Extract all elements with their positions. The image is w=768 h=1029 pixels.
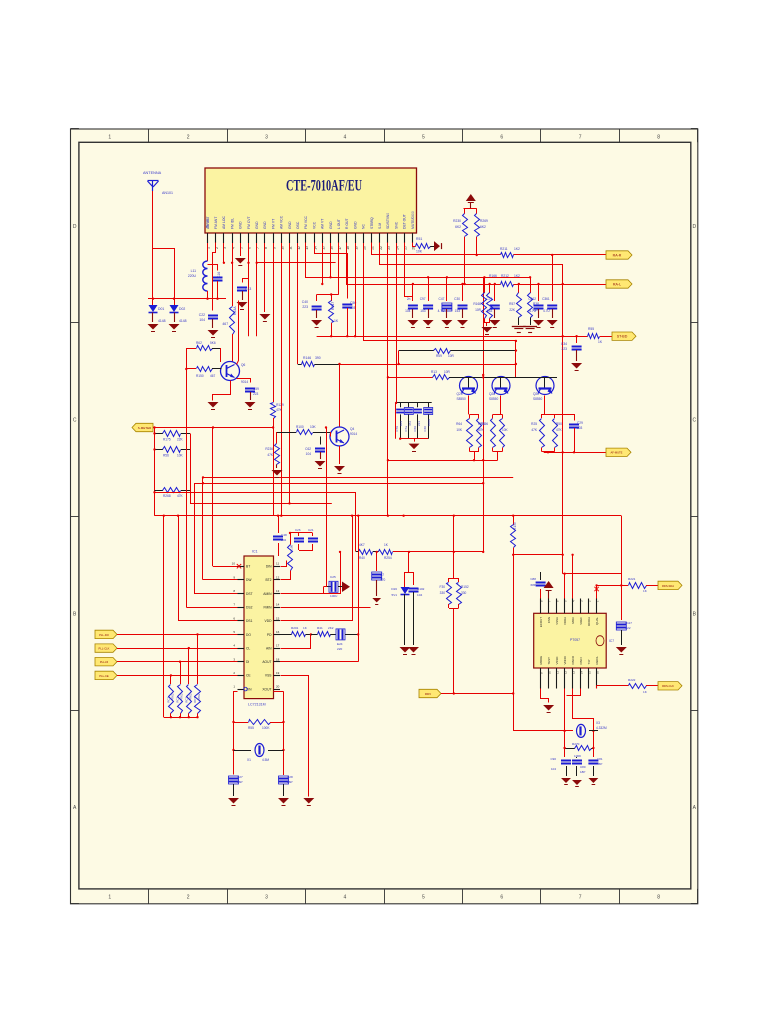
svg-text:14: 14 [276, 603, 280, 607]
svg-text:47K: 47K [556, 428, 563, 432]
svg-text:C88: C88 [530, 577, 536, 581]
svg-text:GND: GND [263, 221, 267, 229]
svg-text:C59: C59 [253, 387, 259, 391]
svg-text:13: 13 [276, 589, 280, 593]
svg-text:FM VT: FM VT [271, 219, 275, 229]
svg-text:100U: 100U [427, 419, 431, 426]
svg-text:SNC: SNC [394, 221, 398, 229]
svg-text:PLL-DO: PLL-DO [99, 633, 109, 637]
svg-text:C48: C48 [281, 533, 287, 537]
svg-text:104: 104 [399, 421, 403, 426]
svg-text:22K: 22K [509, 308, 516, 312]
svg-text:C47: C47 [439, 297, 445, 301]
svg-text:2K2: 2K2 [328, 626, 334, 630]
svg-text:R OUT: R OUT [345, 218, 349, 229]
svg-text:47K: 47K [531, 428, 538, 432]
svg-text:R152: R152 [461, 585, 469, 589]
svg-text:10K: 10K [502, 428, 509, 432]
svg-text:DET OUT: DET OUT [403, 214, 407, 229]
svg-text:56P: 56P [287, 780, 293, 784]
svg-text:6: 6 [500, 134, 503, 140]
svg-text:1: 1 [108, 134, 111, 140]
svg-text:CE: CE [246, 674, 251, 678]
svg-text:MODE: MODE [539, 656, 543, 665]
svg-text:R236: R236 [265, 447, 273, 451]
svg-text:14: 14 [580, 670, 584, 674]
svg-text:RCDIA: RCDIA [587, 617, 591, 626]
svg-text:153: 153 [420, 309, 426, 313]
svg-text:L11: L11 [191, 269, 197, 273]
svg-text:104: 104 [199, 318, 205, 322]
svg-text:VDDD: VDDD [563, 656, 567, 664]
svg-text:4148: 4148 [179, 319, 187, 323]
svg-text:AOUT: AOUT [262, 660, 271, 664]
svg-text:5V1: 5V1 [391, 593, 397, 597]
svg-text:3: 3 [265, 895, 268, 901]
svg-text:C26: C26 [295, 528, 301, 532]
svg-text:47K2: 47K2 [197, 693, 201, 700]
svg-text:GND: GND [329, 221, 333, 229]
svg-text:10R: 10R [444, 370, 451, 374]
svg-text:DI: DI [246, 660, 249, 664]
svg-text:CTE-7010AF/EU: CTE-7010AF/EU [286, 178, 362, 195]
svg-text:VDD: VDD [265, 619, 273, 623]
svg-text:1: 1 [108, 895, 111, 901]
svg-text:105: 105 [350, 306, 356, 310]
svg-text:330: 330 [440, 591, 446, 595]
svg-text:C: C [692, 418, 696, 424]
svg-text:XOUT: XOUT [262, 687, 271, 691]
svg-text:C102: C102 [417, 587, 425, 591]
svg-text:AM VCC: AM VCC [280, 215, 284, 229]
svg-text:223: 223 [253, 392, 259, 396]
svg-text:AF-MUTE: AF-MUTE [611, 451, 623, 455]
svg-text:R211: R211 [500, 247, 508, 251]
svg-text:R51: R51 [416, 237, 422, 241]
svg-text:AIN: AIN [266, 646, 272, 650]
svg-text:15: 15 [276, 616, 280, 620]
svg-text:1K2: 1K2 [514, 247, 520, 251]
svg-text:R150: R150 [196, 374, 204, 378]
svg-text:10K: 10K [310, 425, 317, 429]
svg-text:47K2: 47K2 [180, 693, 184, 700]
svg-text:GND: GND [255, 221, 259, 229]
svg-text:AN101: AN101 [162, 191, 173, 195]
svg-text:16: 16 [596, 670, 600, 674]
svg-text:19: 19 [354, 246, 358, 250]
svg-text:24: 24 [395, 246, 399, 250]
svg-text:10R: 10R [448, 354, 455, 358]
svg-text:3: 3 [265, 134, 268, 140]
svg-text:104: 104 [551, 767, 556, 771]
svg-text:C28: C28 [287, 775, 293, 779]
svg-text:AMIN: AMIN [263, 592, 272, 596]
svg-text:390: 390 [315, 356, 321, 360]
svg-text:R25: R25 [531, 422, 537, 426]
svg-text:100U: 100U [330, 594, 337, 598]
svg-text:NC: NC [362, 224, 366, 229]
svg-text:47K2: 47K2 [188, 693, 192, 700]
svg-text:GND: GND [239, 221, 243, 229]
svg-text:R13: R13 [431, 370, 437, 374]
svg-text:VDDA: VDDA [563, 617, 567, 625]
svg-text:C117: C117 [625, 621, 632, 625]
svg-text:45P: 45P [597, 762, 602, 766]
svg-text:C16: C16 [217, 272, 221, 278]
svg-text:SD/ST/IN0: SD/ST/IN0 [386, 213, 390, 229]
svg-text:C21: C21 [308, 528, 314, 532]
svg-text:DST: DST [246, 592, 253, 596]
svg-text:5: 5 [422, 134, 425, 140]
svg-text:C22: C22 [199, 313, 205, 317]
svg-text:102: 102 [281, 538, 286, 542]
svg-text:2: 2 [187, 134, 190, 140]
svg-text:9014: 9014 [241, 380, 248, 384]
svg-text:100K: 100K [574, 754, 582, 758]
svg-text:4.7U: 4.7U [543, 309, 550, 313]
svg-text:R129: R129 [276, 403, 284, 407]
svg-text:8: 8 [657, 895, 660, 901]
svg-text:5K6: 5K6 [210, 341, 216, 345]
svg-text:18: 18 [276, 657, 280, 661]
svg-text:R57: R57 [509, 302, 515, 306]
svg-text:104: 104 [417, 593, 422, 597]
svg-text:D16: D16 [391, 587, 397, 591]
svg-text:PLL-CE: PLL-CE [99, 674, 109, 678]
svg-text:4: 4 [344, 895, 347, 901]
svg-text:R40: R40 [359, 556, 365, 560]
svg-text:D02: D02 [179, 307, 185, 311]
svg-text:Q2b: Q2b [533, 392, 539, 396]
svg-text:R135: R135 [513, 522, 517, 530]
svg-text:C25: C25 [330, 575, 336, 579]
svg-text:47K2: 47K2 [170, 693, 174, 700]
svg-text:R146: R146 [303, 356, 311, 360]
svg-text:AM LOC: AM LOC [222, 215, 226, 229]
svg-text:Q6: Q6 [241, 363, 245, 367]
svg-text:BT: BT [246, 565, 250, 569]
svg-text:VREF: VREF [579, 617, 583, 625]
svg-text:R168: R168 [473, 302, 481, 306]
svg-text:11: 11 [276, 562, 279, 566]
svg-text:X1: X1 [247, 758, 251, 762]
svg-text:5: 5 [422, 895, 425, 901]
svg-text:104: 104 [306, 452, 312, 456]
svg-text:15: 15 [588, 670, 592, 674]
svg-text:R269: R269 [480, 219, 488, 223]
svg-text:QUAL: QUAL [595, 617, 599, 625]
svg-text:19: 19 [276, 671, 280, 675]
svg-text:R230: R230 [453, 219, 461, 223]
svg-text:6K2: 6K2 [480, 225, 486, 229]
svg-text:2: 2 [187, 895, 190, 901]
svg-text:CSN: CSN [547, 617, 551, 623]
svg-text:FM VCC: FM VCC [304, 215, 308, 229]
svg-text:R59: R59 [436, 354, 442, 358]
svg-text:R268: R268 [163, 494, 171, 498]
svg-text:FM CVT: FM CVT [247, 216, 251, 229]
svg-text:C29: C29 [577, 421, 583, 425]
svg-text:R147: R147 [331, 302, 335, 310]
svg-text:11: 11 [556, 671, 560, 674]
svg-text:C80: C80 [580, 765, 586, 769]
svg-text:4.7U: 4.7U [438, 309, 445, 313]
svg-text:C: C [73, 418, 77, 424]
svg-text:4K7: 4K7 [359, 543, 365, 547]
svg-text:RA-R: RA-R [613, 253, 622, 257]
svg-text:R190: R190 [290, 544, 294, 552]
svg-text:4.332M: 4.332M [596, 726, 607, 730]
svg-text:DIN: DIN [266, 565, 272, 569]
svg-text:C81: C81 [597, 757, 603, 761]
svg-text:470: 470 [380, 578, 386, 582]
svg-text:223: 223 [561, 347, 567, 351]
svg-text:R50: R50 [556, 422, 562, 426]
svg-text:C13: C13 [245, 287, 251, 291]
svg-text:153: 153 [455, 309, 461, 313]
svg-text:330: 330 [461, 591, 467, 595]
svg-text:VCC: VCC [312, 221, 316, 229]
svg-text:RDS-CLK: RDS-CLK [662, 684, 674, 688]
svg-text:2n: 2n [407, 297, 411, 301]
svg-text:13: 13 [572, 670, 576, 674]
svg-text:PT057: PT057 [570, 638, 580, 642]
svg-text:10K: 10K [416, 250, 423, 254]
svg-text:R63A: R63A [233, 306, 237, 315]
svg-text:R100: R100 [296, 425, 304, 429]
svg-text:R62: R62 [196, 341, 202, 345]
svg-text:R175: R175 [163, 438, 171, 442]
svg-text:R22: R22 [625, 626, 631, 630]
svg-text:100K: 100K [262, 726, 270, 730]
svg-text:12: 12 [564, 670, 568, 674]
svg-text:R270: R270 [572, 742, 580, 746]
svg-text:C34: C34 [561, 342, 567, 346]
svg-text:F30: F30 [440, 585, 446, 589]
svg-text:X3: X3 [596, 721, 600, 725]
svg-text:10: 10 [232, 562, 236, 566]
svg-text:ECOUT: ECOUT [539, 617, 543, 627]
svg-text:47K: 47K [478, 428, 485, 432]
svg-text:22K: 22K [177, 438, 184, 442]
svg-text:56P: 56P [237, 780, 243, 784]
svg-text:47K: 47K [267, 453, 274, 457]
svg-text:MOX: MOX [571, 617, 575, 624]
svg-text:GND: GND [288, 221, 292, 229]
svg-text:R201: R201 [291, 626, 299, 630]
svg-text:C361: C361 [542, 297, 550, 301]
svg-text:R55: R55 [248, 726, 254, 730]
svg-text:220: 220 [337, 647, 342, 651]
svg-text:223: 223 [302, 305, 308, 309]
svg-text:10: 10 [548, 670, 552, 674]
svg-text:22K: 22K [533, 308, 540, 312]
svg-text:C7: C7 [380, 573, 384, 577]
svg-text:10K: 10K [177, 454, 184, 458]
svg-text:4: 4 [231, 247, 235, 249]
svg-text:103: 103 [577, 426, 583, 430]
svg-text:AM ANT: AM ANT [206, 216, 210, 229]
svg-text:Q25: Q25 [457, 392, 463, 396]
svg-text:E24: E24 [337, 642, 343, 646]
svg-text:R64: R64 [456, 422, 462, 426]
svg-text:T37: T37 [587, 659, 591, 664]
svg-text:L OUT: L OUT [337, 219, 341, 229]
svg-text:Q4: Q4 [350, 427, 354, 431]
svg-text:6: 6 [500, 895, 503, 901]
svg-text:R196: R196 [480, 422, 488, 426]
svg-text:RDV: RDV [425, 692, 431, 696]
svg-text:PLL-CLK: PLL-CLK [99, 647, 110, 651]
svg-text:7: 7 [579, 134, 582, 140]
svg-text:R222: R222 [628, 678, 636, 682]
svg-text:472: 472 [408, 421, 412, 426]
svg-text:1K: 1K [334, 319, 339, 323]
svg-text:ST-BD: ST-BD [617, 335, 628, 339]
svg-text:TEST: TEST [547, 657, 551, 665]
svg-text:CL: CL [246, 646, 250, 650]
svg-text:IC7: IC7 [609, 639, 614, 643]
svg-text:10R: 10R [475, 308, 482, 312]
svg-text:18P: 18P [580, 770, 585, 774]
svg-text:C90: C90 [550, 757, 556, 761]
svg-text:STBRQ: STBRQ [370, 217, 374, 229]
svg-text:467: 467 [222, 322, 228, 326]
svg-text:4.5M: 4.5M [262, 758, 269, 762]
svg-text:IC1: IC1 [252, 550, 258, 554]
svg-text:R38: R38 [533, 302, 539, 306]
svg-text:220U: 220U [188, 274, 197, 278]
svg-text:D: D [692, 224, 696, 230]
svg-text:S-M: S-M [378, 223, 382, 229]
svg-text:D01: D01 [158, 307, 164, 311]
svg-text:17: 17 [276, 644, 280, 648]
svg-text:S-METER: S-METER [138, 426, 152, 430]
svg-text:C30: C30 [454, 297, 460, 301]
svg-text:D: D [73, 224, 77, 230]
svg-text:RA-L: RA-L [613, 282, 621, 286]
svg-text:OSC: OSC [296, 221, 300, 229]
svg-text:104: 104 [405, 309, 411, 313]
svg-text:16: 16 [276, 630, 280, 634]
svg-text:DO: DO [246, 633, 251, 637]
svg-text:R254: R254 [384, 556, 392, 560]
svg-text:9: 9 [272, 247, 276, 249]
svg-text:68P: 68P [530, 583, 536, 587]
svg-text:9014: 9014 [350, 432, 357, 436]
svg-text:ANTENNA: ANTENNA [143, 171, 162, 175]
svg-text:AM VT: AM VT [321, 219, 325, 229]
svg-text:R221: R221 [628, 577, 636, 581]
svg-text:S8550: S8550 [533, 397, 542, 401]
svg-text:DS1: DS1 [246, 619, 253, 623]
svg-text:R55: R55 [588, 327, 594, 331]
svg-text:Q2a: Q2a [489, 392, 495, 396]
svg-text:MUTE/DI00: MUTE/DI00 [411, 211, 415, 229]
svg-text:GND: GND [353, 221, 357, 229]
svg-text:7: 7 [579, 895, 582, 901]
svg-text:VSSD: VSSD [555, 657, 559, 665]
svg-text:C40: C40 [302, 300, 308, 304]
svg-text:LC72131M: LC72131M [248, 703, 266, 707]
svg-text:6K2: 6K2 [455, 225, 461, 229]
svg-text:47K: 47K [177, 494, 184, 498]
svg-text:S8550: S8550 [489, 397, 498, 401]
svg-text:FM IDL: FM IDL [230, 218, 234, 229]
svg-text:S8550: S8550 [457, 397, 466, 401]
svg-text:R41: R41 [317, 626, 323, 630]
svg-text:14: 14 [313, 246, 317, 250]
svg-text:OSCO: OSCO [571, 655, 575, 664]
svg-text:VSS: VSS [265, 674, 272, 678]
svg-text:BT2: BT2 [265, 578, 271, 582]
svg-text:12: 12 [276, 575, 280, 579]
svg-text:R56: R56 [163, 454, 169, 458]
svg-text:DW: DW [246, 578, 252, 582]
svg-text:C27: C27 [237, 775, 243, 779]
svg-text:FM ANT: FM ANT [214, 217, 218, 229]
svg-text:PLL-DI: PLL-DI [100, 660, 109, 664]
svg-text:8: 8 [657, 134, 660, 140]
svg-text:10K: 10K [456, 428, 463, 432]
svg-text:4: 4 [344, 134, 347, 140]
svg-text:4148: 4148 [158, 319, 166, 323]
svg-text:PD: PD [267, 633, 272, 637]
svg-text:467: 467 [210, 374, 216, 378]
svg-text:DS2: DS2 [246, 605, 253, 609]
svg-text:VSSA: VSSA [555, 617, 559, 625]
svg-text:RDS-SDA: RDS-SDA [662, 584, 674, 588]
svg-text:223: 223 [417, 421, 421, 426]
svg-text:C97: C97 [420, 297, 426, 301]
svg-text:FMIN: FMIN [263, 605, 272, 609]
svg-text:OSCI: OSCI [579, 657, 583, 664]
svg-text:C62: C62 [305, 447, 311, 451]
svg-text:20: 20 [276, 685, 280, 689]
svg-text:REICL: REICL [595, 656, 599, 665]
